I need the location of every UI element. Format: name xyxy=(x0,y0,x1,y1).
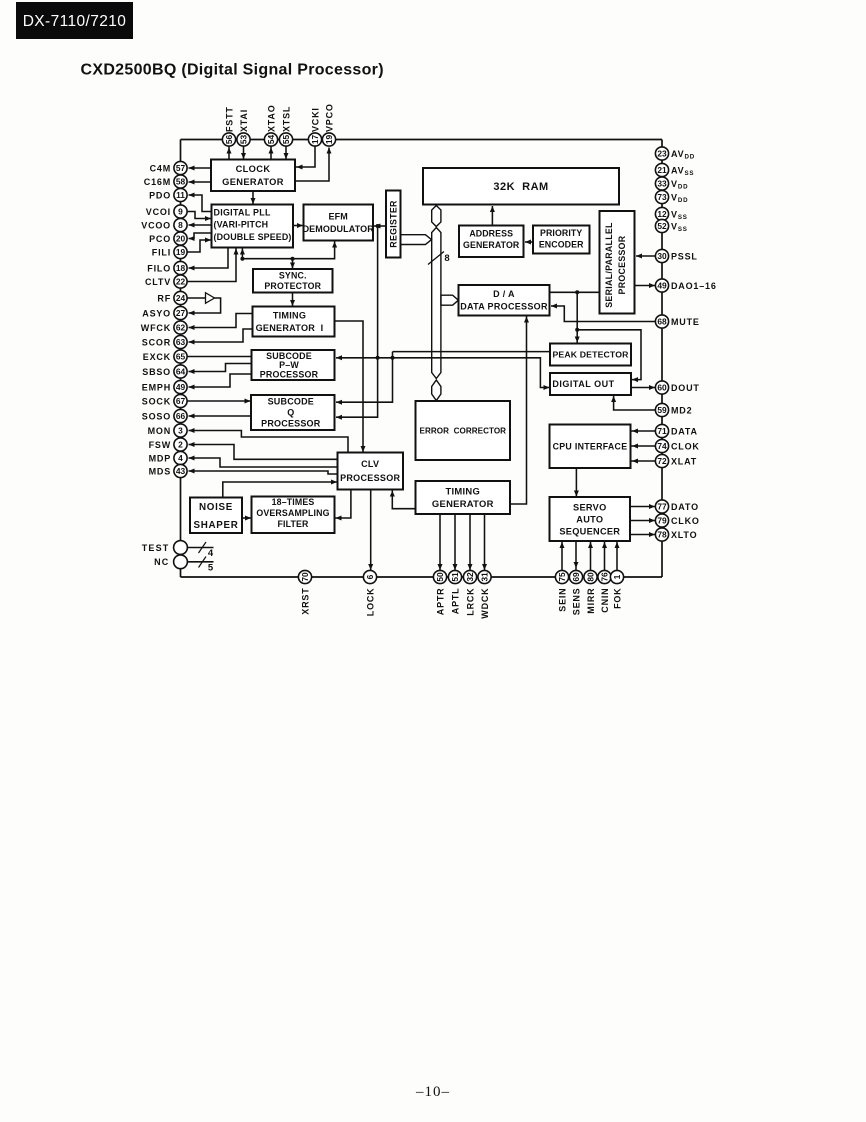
svg-text:PCO: PCO xyxy=(149,234,171,244)
svg-text:SHAPER: SHAPER xyxy=(193,520,238,531)
svg-text:2: 2 xyxy=(178,440,183,450)
svg-text:1: 1 xyxy=(612,574,622,579)
svg-text:SEQUENCER: SEQUENCER xyxy=(559,526,620,536)
svg-text:VPCO: VPCO xyxy=(324,103,334,132)
svg-text:ERROR CORRECTOR: ERROR CORRECTOR xyxy=(420,426,507,435)
svg-text:MIRR: MIRR xyxy=(586,588,596,614)
svg-text:GENERATOR: GENERATOR xyxy=(222,177,284,187)
svg-text:–10–: –10– xyxy=(415,1084,450,1100)
svg-text:XTAI: XTAI xyxy=(239,109,249,132)
svg-text:3: 3 xyxy=(178,426,183,436)
svg-text:51: 51 xyxy=(450,572,460,582)
svg-text:31: 31 xyxy=(480,572,490,582)
svg-text:GENERATOR: GENERATOR xyxy=(432,498,494,509)
svg-text:77: 77 xyxy=(657,502,667,512)
svg-text:C4M: C4M xyxy=(150,163,171,173)
svg-text:NC: NC xyxy=(154,557,169,567)
svg-text:23: 23 xyxy=(657,149,667,159)
svg-text:MUTE: MUTE xyxy=(671,317,700,327)
svg-text:MD2: MD2 xyxy=(671,405,692,415)
svg-text:AUTO: AUTO xyxy=(576,514,603,524)
svg-text:53: 53 xyxy=(239,135,249,145)
svg-text:CLKO: CLKO xyxy=(671,516,700,526)
svg-text:ASYO: ASYO xyxy=(142,308,171,318)
svg-text:DIGITAL OUT: DIGITAL OUT xyxy=(552,379,614,389)
svg-text:XRST: XRST xyxy=(300,588,310,615)
svg-text:PSSL: PSSL xyxy=(671,251,698,261)
svg-text:XTAO: XTAO xyxy=(266,104,276,132)
svg-text:VCKI: VCKI xyxy=(310,107,320,132)
svg-text:63: 63 xyxy=(176,337,186,347)
svg-text:LOCK: LOCK xyxy=(365,588,375,617)
svg-text:SCOR: SCOR xyxy=(142,337,171,347)
svg-text:8: 8 xyxy=(178,220,183,230)
svg-text:PRIORITY: PRIORITY xyxy=(540,228,582,238)
svg-text:64: 64 xyxy=(176,367,186,377)
svg-text:18–TIMES: 18–TIMES xyxy=(272,497,315,507)
svg-text:8: 8 xyxy=(444,253,449,264)
svg-text:66: 66 xyxy=(176,411,186,421)
svg-text:19: 19 xyxy=(324,135,334,145)
svg-text:FSW: FSW xyxy=(149,440,171,450)
svg-text:TIMING: TIMING xyxy=(273,311,306,321)
svg-text:69: 69 xyxy=(571,572,581,582)
svg-text:DX-7110/7210: DX-7110/7210 xyxy=(23,13,127,30)
svg-text:65: 65 xyxy=(176,352,186,362)
svg-text:NOISE: NOISE xyxy=(199,502,233,513)
svg-text:SUBCODE: SUBCODE xyxy=(268,397,314,407)
svg-text:50: 50 xyxy=(435,572,445,582)
svg-text:MDS: MDS xyxy=(149,466,171,476)
svg-text:CLOK: CLOK xyxy=(671,441,700,451)
svg-text:19: 19 xyxy=(176,247,186,257)
svg-text:CLOCK: CLOCK xyxy=(236,164,271,174)
svg-text:DEMODULATOR: DEMODULATOR xyxy=(303,224,375,234)
svg-text:32K RAM: 32K RAM xyxy=(493,181,548,193)
svg-text:62: 62 xyxy=(176,323,186,333)
svg-text:DIGITAL PLL: DIGITAL PLL xyxy=(214,208,271,218)
svg-text:60: 60 xyxy=(657,383,667,393)
svg-text:PROCESSOR: PROCESSOR xyxy=(340,473,400,483)
svg-text:Q: Q xyxy=(287,408,294,418)
svg-text:D / A: D / A xyxy=(493,289,515,299)
svg-text:(DOUBLE SPEED): (DOUBLE SPEED) xyxy=(214,232,292,242)
svg-text:57: 57 xyxy=(176,163,186,173)
svg-text:52: 52 xyxy=(657,221,667,231)
svg-text:49: 49 xyxy=(176,382,186,392)
svg-text:74: 74 xyxy=(657,441,667,451)
svg-text:76: 76 xyxy=(600,572,610,582)
svg-text:PEAK DETECTOR: PEAK DETECTOR xyxy=(552,350,629,360)
svg-text:DATO: DATO xyxy=(671,502,699,512)
svg-text:CLV: CLV xyxy=(361,459,379,469)
svg-text:SBSO: SBSO xyxy=(142,367,171,377)
svg-text:WFCK: WFCK xyxy=(141,323,171,333)
svg-text:4: 4 xyxy=(178,453,183,463)
svg-text:20: 20 xyxy=(176,234,186,244)
svg-text:FILO: FILO xyxy=(147,263,171,273)
svg-text:VCOO: VCOO xyxy=(141,220,171,230)
svg-text:54: 54 xyxy=(266,135,276,145)
svg-text:22: 22 xyxy=(176,277,186,287)
svg-text:PDO: PDO xyxy=(149,190,171,200)
svg-text:ENCODER: ENCODER xyxy=(539,239,584,249)
svg-text:43: 43 xyxy=(176,466,186,476)
svg-text:75: 75 xyxy=(557,572,567,582)
svg-text:APTL: APTL xyxy=(450,588,460,615)
svg-text:GENERATOR: GENERATOR xyxy=(463,240,520,250)
svg-text:30: 30 xyxy=(657,251,667,261)
svg-text:68: 68 xyxy=(657,317,667,327)
svg-text:SOSO: SOSO xyxy=(142,411,171,421)
svg-text:FILI: FILI xyxy=(152,247,171,257)
svg-text:LRCK: LRCK xyxy=(465,588,475,616)
svg-text:56: 56 xyxy=(224,135,234,145)
svg-text:MDP: MDP xyxy=(149,453,171,463)
svg-text:67: 67 xyxy=(176,396,186,406)
svg-text:27: 27 xyxy=(176,308,186,318)
svg-text:PROTECTOR: PROTECTOR xyxy=(264,281,321,291)
svg-text:18: 18 xyxy=(176,263,186,273)
svg-text:ADDRESS: ADDRESS xyxy=(469,229,513,239)
svg-text:VCOI: VCOI xyxy=(146,207,171,217)
svg-text:DATA: DATA xyxy=(671,426,698,436)
svg-text:SEIN: SEIN xyxy=(557,588,567,612)
svg-text:CNIN: CNIN xyxy=(600,588,610,613)
svg-text:SYNC.: SYNC. xyxy=(279,271,307,281)
svg-text:TEST: TEST xyxy=(142,543,170,553)
svg-text:73: 73 xyxy=(657,192,667,202)
svg-text:PROCESSOR: PROCESSOR xyxy=(260,370,319,380)
svg-text:XLTO: XLTO xyxy=(671,530,697,540)
svg-text:TIMING: TIMING xyxy=(445,486,480,497)
svg-text:DAO1–16: DAO1–16 xyxy=(671,281,717,291)
svg-text:OVERSAMPLING: OVERSAMPLING xyxy=(256,508,329,518)
svg-text:24: 24 xyxy=(176,293,186,303)
svg-text:4: 4 xyxy=(208,548,214,559)
svg-text:78: 78 xyxy=(657,530,667,540)
svg-text:71: 71 xyxy=(657,426,667,436)
svg-text:(VARI-PITCH: (VARI-PITCH xyxy=(214,220,269,230)
svg-text:EMPH: EMPH xyxy=(142,382,171,392)
svg-text:80: 80 xyxy=(586,572,596,582)
svg-text:9: 9 xyxy=(178,207,183,217)
svg-text:12: 12 xyxy=(657,209,667,219)
svg-text:APTR: APTR xyxy=(435,588,445,616)
svg-text:59: 59 xyxy=(657,405,667,415)
svg-text:72: 72 xyxy=(657,456,667,466)
svg-text:CLTV: CLTV xyxy=(145,277,171,287)
svg-text:FILTER: FILTER xyxy=(277,519,309,529)
svg-text:RF: RF xyxy=(157,293,171,303)
svg-text:6: 6 xyxy=(365,574,375,579)
svg-text:C16M: C16M xyxy=(144,177,171,187)
svg-text:32: 32 xyxy=(465,572,475,582)
svg-text:REGISTER: REGISTER xyxy=(389,200,399,248)
svg-text:DATA PROCESSOR: DATA PROCESSOR xyxy=(460,302,548,312)
svg-text:MON: MON xyxy=(148,426,171,436)
svg-text:70: 70 xyxy=(300,572,310,582)
svg-text:5: 5 xyxy=(208,563,214,574)
svg-text:XLAT: XLAT xyxy=(671,456,697,466)
svg-text:17: 17 xyxy=(310,135,320,145)
svg-text:58: 58 xyxy=(176,177,186,187)
svg-text:FOK: FOK xyxy=(612,588,622,609)
svg-text:EFM: EFM xyxy=(329,212,348,222)
svg-text:SOCK: SOCK xyxy=(142,396,171,406)
svg-text:SERIAL/PARALLEL: SERIAL/PARALLEL xyxy=(604,222,614,308)
svg-text:DOUT: DOUT xyxy=(671,383,700,393)
svg-text:XTSL: XTSL xyxy=(281,106,291,132)
svg-text:PROCESSOR: PROCESSOR xyxy=(261,419,321,429)
svg-text:49: 49 xyxy=(657,281,667,291)
svg-text:WDCK: WDCK xyxy=(480,588,490,619)
svg-text:SENS: SENS xyxy=(571,588,581,616)
svg-text:CPU INTERFACE: CPU INTERFACE xyxy=(553,441,628,451)
svg-text:EXCK: EXCK xyxy=(143,352,171,362)
svg-text:21: 21 xyxy=(657,165,667,175)
svg-text:GENERATOR I: GENERATOR I xyxy=(256,323,324,333)
svg-text:CXD2500BQ (Digital Signal Proc: CXD2500BQ (Digital Signal Processor) xyxy=(81,62,384,79)
svg-text:SERVO: SERVO xyxy=(573,502,607,512)
svg-text:11: 11 xyxy=(176,190,185,200)
svg-text:FSTT: FSTT xyxy=(224,106,234,132)
svg-text:79: 79 xyxy=(657,516,667,526)
svg-text:PROCESSOR: PROCESSOR xyxy=(617,235,627,294)
svg-text:55: 55 xyxy=(281,135,291,145)
svg-text:33: 33 xyxy=(657,179,667,189)
